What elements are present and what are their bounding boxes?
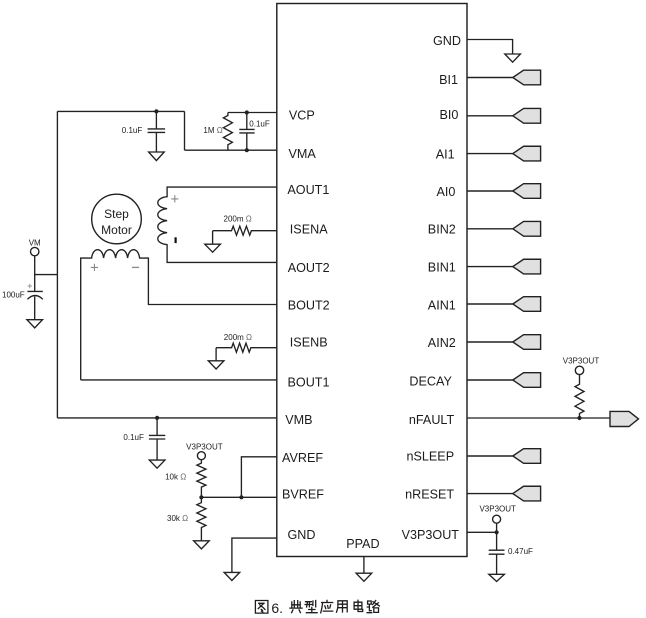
glyph xing (model) [305, 601, 317, 613]
wire AI0 stub [467, 190, 513, 192]
svg-text:200m Ω: 200m Ω [224, 333, 252, 342]
node junction dot VMA/C2 [245, 148, 249, 152]
wire AVREF pin line [241, 457, 276, 498]
svg-text:1M Ω: 1M Ω [203, 126, 222, 135]
pin AI0 arrow [513, 184, 541, 199]
pin DECAY arrow [513, 373, 541, 388]
op-amp U1 (driver IC body) [277, 4, 467, 557]
svg-text:AI0: AI0 [436, 185, 455, 199]
ground ISENB [208, 348, 224, 369]
node junction dot AVREF/BVREF [239, 495, 243, 499]
svg-text:nSLEEP: nSLEEP [406, 450, 454, 464]
wire nFAULT line [467, 417, 610, 419]
wire nRESET stub [467, 493, 513, 495]
svg-text:AVREF: AVREF [282, 451, 323, 465]
svg-text:Step: Step [104, 207, 129, 221]
svg-text:BVREF: BVREF [282, 488, 324, 502]
svg-text:0.1uF: 0.1uF [123, 433, 144, 442]
node V3P3OUT terminal right [493, 515, 501, 523]
svg-text:VM: VM [29, 238, 41, 247]
pin labels right column [402, 34, 461, 542]
svg-text:BI0: BI0 [439, 108, 458, 122]
node junction dot V3P3OUT [495, 530, 499, 534]
svg-text:V3P3OUT: V3P3OUT [479, 504, 516, 513]
node VM terminal [31, 247, 39, 255]
svg-text:100uF: 100uF [2, 291, 25, 300]
svg-text:AIN2: AIN2 [428, 336, 456, 350]
svg-text:BIN2: BIN2 [428, 223, 456, 237]
ground PPAD [356, 573, 372, 581]
svg-text:200m Ω: 200m Ω [224, 215, 252, 224]
svg-text:V3P3OUT: V3P3OUT [563, 356, 600, 365]
svg-text:DECAY: DECAY [409, 375, 452, 389]
ground under C4 [149, 460, 165, 468]
pin BI0 arrow [513, 108, 541, 123]
wire AIN2 stub [467, 341, 513, 343]
pin BIN1 arrow [513, 259, 541, 274]
svg-text:AOUT1: AOUT1 [287, 183, 329, 197]
wire V3P3OUT pin line [467, 531, 497, 533]
wire DECAY stub [467, 379, 513, 381]
label winding B minus [132, 266, 139, 268]
ground GND left [224, 572, 240, 580]
motor M1 circle [92, 194, 142, 244]
glyph yong (use) [337, 601, 348, 612]
ground under C1 [149, 152, 165, 161]
svg-text:AI1: AI1 [436, 148, 455, 162]
resistor R6 pullup [575, 375, 584, 418]
inductor L1 winding A vertical [158, 187, 277, 262]
wire nSLEEP stub [467, 455, 513, 457]
glyph tu (picture) [255, 601, 267, 614]
wire VMB pin line [57, 417, 276, 419]
resistor R2 200m ISENA [213, 226, 277, 235]
wire AIN1 stub [467, 303, 513, 305]
glyph dian (classic) [290, 601, 302, 613]
wire VM rail vertical [56, 111, 58, 418]
wire top VCP/VMA feed horizontal [57, 110, 184, 112]
pin BIN2 arrow [513, 221, 541, 236]
inductor L2 winding B horizontal [81, 250, 277, 380]
node junction dot nFAULT [577, 416, 581, 420]
wire GND right pin [467, 40, 513, 55]
svg-text:0.1uF: 0.1uF [249, 120, 270, 129]
wire terminal to junction [496, 523, 498, 532]
connector arrows (inputs) [467, 70, 639, 501]
pin nRESET arrow [513, 486, 541, 501]
capacitor C1 0.1uF top plate stem [148, 111, 166, 152]
capacitor C3 100uF polarized [27, 275, 42, 320]
svg-text:10k Ω: 10k Ω [165, 473, 186, 482]
wire VMA pin line [185, 149, 277, 151]
svg-text:0.47uF: 0.47uF [508, 547, 533, 556]
svg-text:6.: 6. [271, 600, 283, 616]
wire BIN1 stub [467, 266, 513, 268]
node junction dot divider mid [199, 495, 203, 499]
resistor R4 10k [197, 460, 206, 498]
svg-text:GND: GND [433, 34, 461, 48]
pin nSLEEP arrow [513, 449, 541, 464]
svg-text:Motor: Motor [101, 223, 132, 237]
wire BIN2 stub [467, 228, 513, 230]
resistor R3 200m ISENB [216, 343, 277, 352]
capacitor C4 0.1uF VMB [149, 418, 165, 460]
svg-text:V3P3OUT: V3P3OUT [186, 443, 223, 452]
wire VCP pin line [228, 112, 277, 114]
glyph dian2 (electric) [354, 600, 363, 611]
svg-text:VMB: VMB [285, 413, 312, 427]
ground ISENA [205, 231, 221, 253]
svg-text:BOUT1: BOUT1 [288, 376, 330, 390]
ground under C3 [27, 320, 43, 328]
wire BOUT1 line [81, 379, 277, 381]
wire vertical drop to VMA [184, 111, 186, 150]
svg-text:BIN1: BIN1 [428, 261, 456, 275]
svg-text:ISENB: ISENB [290, 335, 328, 349]
label winding A plus [171, 195, 178, 202]
wire PPAD stub [363, 557, 365, 574]
wire BI1 stub [467, 77, 513, 79]
capacitor C5 0.47uF [489, 532, 505, 574]
resistor R5 30k [197, 497, 206, 541]
pin BI1 arrow [513, 70, 541, 85]
svg-text:BI1: BI1 [439, 73, 458, 87]
svg-text:nFAULT: nFAULT [409, 413, 455, 427]
svg-text:PPAD: PPAD [346, 537, 379, 551]
svg-text:30k Ω: 30k Ω [167, 514, 188, 523]
node junction dot top feed [154, 109, 158, 113]
pin AI1 arrow [513, 146, 541, 161]
glyph ying (apply) [321, 600, 333, 612]
ground under divider [194, 541, 210, 549]
label C3 plus sign [28, 284, 33, 289]
svg-text:0.1uF: 0.1uF [122, 126, 143, 135]
ground GND right [505, 54, 521, 62]
pin AIN1 arrow [513, 297, 541, 312]
svg-text:nRESET: nRESET [405, 487, 454, 501]
resistor R1 1M vertical [223, 113, 232, 151]
wire AI1 stub [467, 153, 513, 155]
svg-text:V3P3OUT: V3P3OUT [402, 528, 460, 542]
wire GND left pin [232, 538, 277, 572]
wire BI0 stub [467, 115, 513, 117]
glyph lu (road) [367, 601, 379, 613]
node V3P3OUT terminal left [197, 452, 205, 460]
node junction dot VMB cap [155, 416, 159, 420]
pin nFAULT output arrow [610, 411, 639, 426]
pin labels left column [282, 109, 380, 551]
wire BVREF pin line [201, 496, 276, 498]
pin AIN2 arrow [513, 335, 541, 350]
ground under C5 [489, 574, 505, 581]
svg-text:AOUT2: AOUT2 [288, 261, 330, 275]
wire VM terminal to rail [35, 256, 58, 275]
svg-text:VCP: VCP [289, 109, 315, 123]
capacitor C2 0.1uF parallel [239, 113, 254, 151]
svg-text:GND: GND [288, 528, 316, 542]
label winding A minus bar [175, 237, 177, 243]
svg-text:VMA: VMA [289, 147, 317, 161]
node V3P3OUT terminal pullup [575, 366, 583, 374]
svg-text:ISENA: ISENA [290, 223, 328, 237]
label winding B plus [91, 264, 98, 271]
caption figure 6 chinese [255, 600, 379, 616]
svg-text:AIN1: AIN1 [428, 298, 456, 312]
svg-text:BOUT2: BOUT2 [288, 299, 330, 313]
node junction dot VCP/C2 [245, 110, 249, 114]
